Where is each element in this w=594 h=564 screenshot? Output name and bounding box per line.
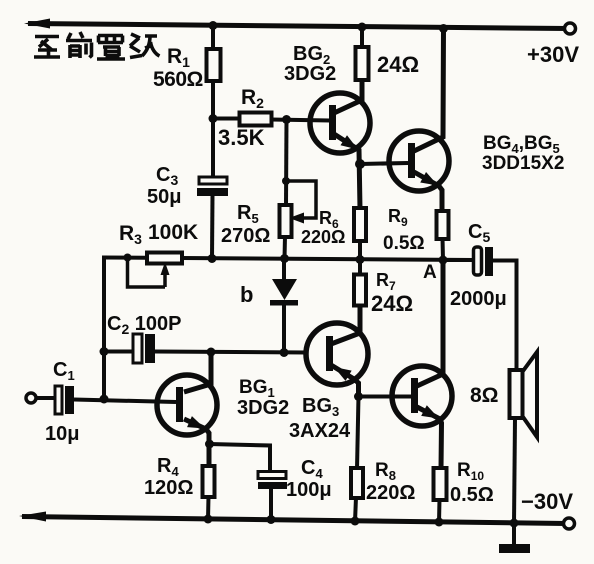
- wire R1 bottom to node: [211, 80, 215, 119]
- node diode top: [280, 254, 289, 263]
- wire C5 right to corner: [493, 261, 517, 371]
- node R6-R7: [356, 255, 365, 264]
- wire C1 to BG1 base: [74, 400, 176, 403]
- wire R7 to BG3 collector: [331, 305, 360, 344]
- svg-text:3DD15X2: 3DD15X2: [482, 153, 564, 174]
- wire R5 slider bracket: [286, 181, 316, 218]
- arrow top-left: [24, 19, 50, 29]
- wire R4 bottom: [206, 496, 211, 520]
- wire BG4 collector from rail: [414, 28, 444, 151]
- wire R6 bottom: [358, 240, 362, 260]
- wire ground stub: [512, 523, 516, 545]
- svg-text:2000μ: 2000μ: [450, 288, 507, 310]
- transistor BG5: [392, 366, 452, 426]
- wire C3 to mid bus: [210, 195, 215, 259]
- wire speaker bottom: [514, 418, 515, 524]
- node C1-BG1 base: [100, 395, 109, 404]
- node 24ohm top: [358, 23, 367, 32]
- node R4 rail: [204, 515, 213, 524]
- svg-text:A: A: [423, 262, 437, 283]
- wire +30V top rail: [28, 24, 568, 29]
- node C3 mid bus: [208, 254, 217, 263]
- terminal input: [26, 393, 36, 403]
- capacitor C3: [199, 177, 227, 184]
- capacitor C2: [133, 334, 142, 363]
- wire BG4 base: [360, 163, 408, 164]
- wire R2 node down to R5: [284, 119, 289, 206]
- resistor R4: [203, 466, 215, 497]
- transistor BG1: [157, 375, 217, 435]
- wire 24ohm to BG2 collector: [334, 79, 362, 113]
- node BG4 rail: [439, 24, 448, 33]
- wire R10 bottom: [437, 499, 442, 523]
- svg-text:24Ω: 24Ω: [371, 291, 413, 316]
- svg-text:100K: 100K: [148, 221, 198, 244]
- wire BG1 collector: [184, 352, 211, 392]
- capacitor C5: [474, 247, 482, 275]
- arrow R3 slider: [163, 271, 167, 287]
- svg-text:3DG2: 3DG2: [237, 397, 289, 419]
- node A: [439, 256, 448, 265]
- node BG3-BG5 base: [354, 392, 363, 401]
- svg-text:3DG2: 3DG2: [284, 63, 336, 85]
- resistor R2: [240, 113, 272, 126]
- arrow bottom-left: [19, 512, 46, 522]
- capacitor C4: [258, 472, 286, 479]
- terminal -30V: [564, 518, 575, 529]
- svg-text:C2 100P: C2 100P: [107, 313, 182, 337]
- wire BG5 base: [359, 395, 411, 399]
- svg-text:50μ: 50μ: [147, 186, 181, 208]
- ground: [499, 544, 530, 553]
- capacitor C1: [55, 386, 62, 414]
- transistor BG3: [306, 323, 368, 385]
- wire R2 left: [213, 117, 240, 121]
- resistor R10: [434, 468, 447, 500]
- wire node to C3: [211, 118, 215, 178]
- wire BG5 emitter to R10: [417, 407, 442, 469]
- resistor R7: [354, 275, 366, 306]
- svg-text:100μ: 100μ: [286, 479, 332, 501]
- node C2 left: [100, 347, 109, 356]
- svg-text:120Ω: 120Ω: [144, 477, 193, 499]
- wire R2 right to BG2 base: [271, 120, 330, 121]
- transistor BG4: [389, 131, 449, 191]
- resistor 24ohm top: [356, 47, 369, 80]
- label 至前置级: [34, 32, 160, 59]
- wire BG2 emitter column: [334, 134, 360, 209]
- node C4 rail: [267, 515, 276, 524]
- node R1 top: [209, 21, 218, 30]
- transistor BG2: [310, 93, 370, 155]
- wire node A to C5: [443, 258, 473, 262]
- svg-text:24Ω: 24Ω: [377, 52, 419, 77]
- svg-text:+30V: +30V: [527, 42, 579, 67]
- resistor R8: [351, 468, 363, 498]
- wire BG3 emitter to node: [331, 365, 359, 397]
- node R8 rail: [351, 517, 360, 526]
- resistor R3: [147, 253, 182, 264]
- wire R5 bottom: [283, 236, 288, 259]
- resistor R9: [437, 211, 449, 239]
- svg-text:3.5K: 3.5K: [218, 125, 265, 150]
- svg-text:10μ: 10μ: [45, 423, 79, 445]
- node R5 bracket: [282, 177, 290, 185]
- wire 24ohm resistor top: [360, 26, 364, 48]
- wire node A to BG5 collector: [417, 260, 443, 386]
- svg-text:b: b: [240, 282, 253, 307]
- speaker 8ohm: [510, 352, 538, 437]
- resistor R5: [280, 205, 292, 237]
- wire BG4 emitter to R9: [414, 172, 442, 213]
- node R10 rail: [435, 518, 444, 527]
- wire bias bus y=352: [104, 350, 133, 354]
- svg-text:560Ω: 560Ω: [153, 68, 203, 91]
- svg-text:0.5Ω: 0.5Ω: [383, 233, 425, 254]
- wire input to C1: [36, 396, 56, 400]
- arrow R5 slider: [289, 213, 304, 224]
- wire R1 top: [211, 24, 215, 50]
- wire: [155, 352, 306, 353]
- wire node to R8: [357, 396, 359, 469]
- wire diode cathode to bias bus: [282, 303, 286, 353]
- wire diode anode: [282, 258, 286, 281]
- wire -30V bottom rail: [22, 517, 566, 524]
- wire R9 bottom to node A: [441, 238, 446, 260]
- node speaker rail: [510, 519, 519, 528]
- wire mid horizontal bus y=258: [104, 258, 473, 261]
- node R3 slider tap: [124, 254, 132, 262]
- svg-text:220Ω: 220Ω: [301, 227, 345, 247]
- resistor R6: [354, 208, 366, 241]
- svg-text:−30V: −30V: [521, 489, 573, 514]
- svg-text:8Ω: 8Ω: [470, 384, 499, 407]
- wire R7 top: [358, 259, 362, 275]
- node R1-R2-C3: [209, 114, 218, 123]
- wire C4 bottom: [269, 488, 273, 521]
- svg-text:220Ω: 220Ω: [366, 482, 415, 504]
- svg-text:270Ω: 270Ω: [221, 225, 270, 247]
- terminal +30V: [565, 23, 576, 34]
- diode b: [272, 279, 297, 300]
- node diode bottom: [280, 348, 289, 357]
- svg-text:3AX24: 3AX24: [289, 420, 351, 442]
- wire left vertical x=104: [102, 256, 106, 402]
- node BG1 collector: [207, 348, 216, 357]
- resistor R1: [207, 49, 221, 81]
- wire BG1 emitter: [184, 419, 209, 468]
- wire R3 slider bracket: [128, 258, 166, 287]
- wire R8 bottom: [355, 497, 356, 522]
- node R2-R5-BG2: [282, 115, 291, 124]
- svg-text:0.5Ω: 0.5Ω: [450, 484, 494, 506]
- wire emitter to C4: [209, 444, 270, 473]
- node BG4 base tap: [355, 159, 365, 169]
- node BG1 emitter: [205, 440, 214, 449]
